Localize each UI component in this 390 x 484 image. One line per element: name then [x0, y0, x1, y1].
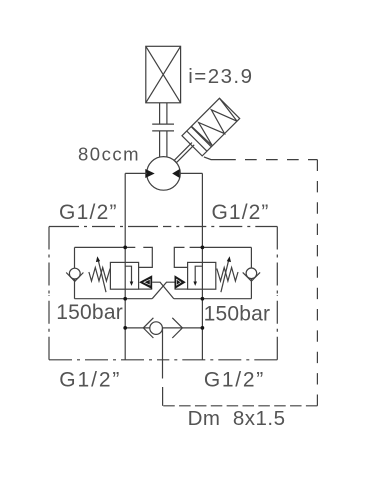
- drain hose leader from brake: [204, 157, 236, 160]
- piston (double line): [187, 131, 207, 151]
- RV2 spring: [217, 268, 238, 282]
- shuttle right seat: [172, 318, 182, 338]
- shuttle valve line: [125, 327, 202, 329]
- relief valve RV2 loop top line: [190, 246, 252, 248]
- node A top junction: [123, 246, 127, 250]
- brake cylinder (spring applied): [166, 98, 240, 172]
- crossover wire from RV1 check to line B bottom: [152, 282, 174, 299]
- svg-text:80ccm: 80ccm: [78, 143, 140, 164]
- node A shuttle junction: [123, 326, 127, 330]
- cylinder body: [182, 98, 240, 156]
- RV2 loop bottom line: [174, 298, 252, 300]
- RV2 bracket to crossover check: [174, 247, 187, 267]
- node B bottom junction: [201, 297, 205, 301]
- RV1 spring: [89, 268, 110, 282]
- wire: shuttle drain down: [162, 328, 164, 378]
- drain hose dashed top: [245, 159, 317, 161]
- crossover wire from RV2 check to line A bottom: [152, 282, 174, 299]
- hydraulic motor M1 80ccm: [147, 157, 181, 191]
- wire: line A vertical: [124, 173, 126, 359]
- wire: motor right port to line B: [180, 172, 202, 174]
- RV1 internal flow arrow: [125, 266, 132, 283]
- svg-text:G1/2”: G1/2”: [212, 201, 270, 224]
- node A bottom junction: [123, 297, 127, 301]
- gearbox U1 (i=23.9): [146, 46, 181, 103]
- wire: line B through RV2 body: [201, 262, 203, 289]
- manifold body dash-dot box: [49, 227, 277, 360]
- drain hose dashed right: [316, 160, 318, 406]
- anti-cavitation check C2 ball: [246, 268, 257, 279]
- node B shuttle junction: [201, 326, 205, 330]
- RV1 loop bottom line: [75, 298, 153, 300]
- crossover check arrow left (to RV1): [139, 288, 153, 290]
- svg-text:G1/2”: G1/2”: [59, 368, 121, 391]
- RV2 valve body: [188, 262, 216, 289]
- RV1 loop left vertical: [74, 247, 76, 298]
- svg-text:150bar: 150bar: [56, 301, 123, 324]
- crossover check arrow right (to RV2): [175, 288, 188, 290]
- RV1 adjustment arrow: [98, 259, 106, 292]
- RV1 bracket to crossover check: [139, 247, 153, 267]
- shuttle ball: [150, 322, 163, 335]
- svg-text:i=23.9: i=23.9: [188, 65, 253, 88]
- motor flow arrow right: [172, 169, 180, 178]
- coupling ticks: [152, 124, 174, 131]
- motor flow arrow left: [145, 169, 154, 178]
- RV1 valve body: [110, 262, 138, 289]
- brake spring: [191, 98, 239, 146]
- RV2 adjustment arrow: [221, 259, 229, 292]
- RV2 loop right vertical: [250, 247, 252, 298]
- wire: line A through RV1 body: [124, 262, 126, 289]
- RV2 internal flow arrow: [195, 266, 202, 283]
- anti-cavitation check C1 ball: [69, 268, 80, 279]
- node B top junction: [201, 246, 205, 250]
- svg-text:150bar: 150bar: [204, 303, 271, 326]
- shaft between gearbox and motor: [160, 103, 167, 157]
- svg-text:G1/2”: G1/2”: [204, 368, 265, 391]
- check C1 seat: [66, 273, 83, 282]
- shuttle left seat: [143, 318, 153, 338]
- check C2 seat: [243, 272, 260, 281]
- wire: motor left port to line A: [125, 172, 147, 174]
- svg-text:Dm 8x1.5: Dm 8x1.5: [188, 407, 286, 430]
- piston rod: [174, 143, 192, 161]
- relief valve RV1 loop top line: [75, 246, 136, 248]
- drain hose dashed bottom: [163, 405, 318, 407]
- drain hose left stub: [162, 387, 164, 406]
- wire: line B vertical: [201, 173, 203, 359]
- svg-text:G1/2”: G1/2”: [59, 201, 118, 224]
